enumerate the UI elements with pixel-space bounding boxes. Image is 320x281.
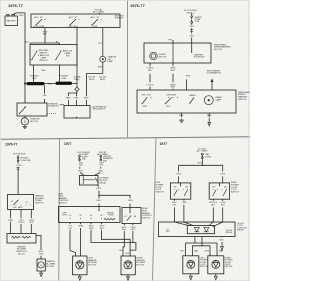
wire neutral switch to fusible link right xyxy=(59,65,61,82)
wire neutral switch to fusible link left xyxy=(33,65,35,82)
wire motor bus 2 xyxy=(192,245,210,247)
arrow relay ground xyxy=(221,242,224,251)
washer solenoid contact xyxy=(191,52,192,53)
wire rsw out1 b xyxy=(212,207,214,222)
wire fusible link to solenoid xyxy=(44,85,46,93)
node battery/fusible-link junction xyxy=(24,83,26,85)
wire charge lamp to regulator xyxy=(87,74,103,97)
wire rsw out2 a xyxy=(222,199,224,201)
wire fuse to wiper motor a xyxy=(191,23,193,25)
ground wiper switch xyxy=(179,119,184,123)
wire ignition to alternator xyxy=(76,28,78,88)
wire bus1 to left motor xyxy=(184,243,186,256)
left lock switch feed internal xyxy=(180,183,182,186)
wire fuse to relay left c xyxy=(80,173,83,176)
connector bl xyxy=(17,168,20,170)
wire lsw out1 a xyxy=(174,199,176,201)
heater switch lever bl xyxy=(13,200,18,205)
wire T-split horizontal xyxy=(31,42,60,44)
resistor element 1 bl xyxy=(12,236,21,238)
relay coil wire bm xyxy=(83,176,95,184)
wire fuse to switch bl a xyxy=(17,162,19,164)
wire charge lamp down xyxy=(102,62,104,73)
wire blower sw out1 a xyxy=(10,210,12,219)
wire ignition to T-split xyxy=(44,28,46,44)
relay diode left xyxy=(194,227,199,232)
scan edge bottom xyxy=(0,280,250,281)
starter motor xyxy=(21,118,28,125)
wire resistor to motor bl b xyxy=(40,256,42,259)
wire blower sw out3 a xyxy=(30,210,32,219)
wire wiper motor out2 lower xyxy=(172,89,174,90)
relay internal wire 1 xyxy=(175,222,189,226)
wire junction to right branch xyxy=(99,195,130,198)
wire blower sw out2 a xyxy=(20,210,22,219)
heater fuse bm xyxy=(79,156,81,161)
wire main bus xyxy=(25,83,77,85)
wire park feed stub xyxy=(172,40,174,43)
ignition contact cluster 2 xyxy=(69,19,79,26)
circuit breaker bm xyxy=(100,156,102,161)
wire long box out2 a xyxy=(80,223,82,225)
wire rsw out2 b xyxy=(222,207,224,222)
right power door lock motor symbol xyxy=(212,260,220,268)
relay internal wire 2 xyxy=(184,222,193,226)
wire long box out3 b xyxy=(91,230,136,250)
wire long box out1 b xyxy=(70,230,76,256)
left heater blower motor box bm xyxy=(73,256,87,275)
left heater blower motor symbol xyxy=(76,261,84,269)
ground left lock motor xyxy=(189,274,192,280)
wire park feed internal xyxy=(172,43,174,63)
battery xyxy=(5,15,18,26)
heater blower motor symbol bl xyxy=(38,262,44,268)
switch feed internal bm xyxy=(98,207,100,211)
wire reg stub3 lower xyxy=(86,100,88,106)
stub into regulator left xyxy=(60,104,65,106)
right box lever xyxy=(127,216,131,221)
wire fuse to junction br xyxy=(201,159,203,166)
ground starter motor xyxy=(22,125,27,129)
back-up lamp switch lever right xyxy=(55,51,61,61)
wire to right lock switch b xyxy=(222,176,224,183)
wire resistor to motor bl a xyxy=(36,236,41,251)
wire long box out2 b xyxy=(80,228,82,256)
neutral safety and back-up lamp switch box xyxy=(30,45,77,66)
wire bus2 to left motor xyxy=(191,246,193,256)
arrow instrument illumination xyxy=(211,78,214,90)
right power door lock switch box xyxy=(209,183,229,199)
alternator voltage regulator box xyxy=(64,106,90,119)
wire wiper motor out1 mid xyxy=(149,74,151,83)
resistor element 2 bl xyxy=(22,236,31,238)
wire relay out a xyxy=(98,185,99,187)
right power door lock motor box xyxy=(208,256,224,274)
wire fuse to relay left xyxy=(79,160,81,163)
wire relay ground xyxy=(221,236,223,239)
scan edge right xyxy=(248,0,250,281)
blower motor relay box bm xyxy=(80,176,99,186)
wire relay out b xyxy=(98,191,100,196)
wire right branch lower xyxy=(129,204,131,208)
wire T-split right drop xyxy=(59,43,61,45)
left lock switch dots xyxy=(174,188,188,191)
wire reg stub2 lower xyxy=(76,100,78,106)
wire breaker to relay right xyxy=(100,160,102,163)
ground heater blower motor bl xyxy=(40,271,43,277)
wire solenoid to starter motor xyxy=(24,116,26,118)
fusible link bar left xyxy=(27,82,45,85)
wire wash feed stub xyxy=(186,79,188,90)
relay diode right xyxy=(204,227,209,232)
wire right box out1 b xyxy=(123,231,124,256)
neutral safety switch lever left xyxy=(31,51,37,61)
node motor bus 2 xyxy=(201,245,202,246)
wire hot tick bl xyxy=(17,155,19,156)
wire relay out unlock xyxy=(201,237,203,246)
wire distribution br xyxy=(179,164,223,166)
page background xyxy=(0,0,250,281)
scan edge top xyxy=(0,0,250,1)
right lock switch dots xyxy=(213,188,227,191)
ground right blower motor bm xyxy=(127,275,130,281)
left heater control switch box bm xyxy=(59,207,121,223)
wire fuse to switch bl b xyxy=(17,167,19,195)
wash switch contact xyxy=(189,98,194,104)
wire wiper motor out1 upper xyxy=(149,63,151,66)
starter solenoid box xyxy=(17,103,47,116)
wire relay out lock xyxy=(194,237,196,244)
wire battery main vertical xyxy=(24,13,26,103)
wire lsw out2 a xyxy=(183,199,185,201)
wire bus1 to right motor xyxy=(216,243,218,256)
door lock relay inner box xyxy=(187,226,214,234)
right lock switch feed internal xyxy=(218,183,220,186)
panel divider vertical bottom-right xyxy=(153,137,157,281)
wire right box out2 b xyxy=(132,231,134,243)
wire long box out3 a xyxy=(90,223,92,225)
node jog merge xyxy=(130,250,131,251)
wire switch ground right xyxy=(208,113,210,117)
wire battery to main feed xyxy=(13,13,25,15)
wire right box out1 a xyxy=(123,224,125,226)
wire blower sw out2 b xyxy=(20,224,22,234)
panel divider horizontal xyxy=(0,137,250,139)
wiper switch lamp xyxy=(204,96,213,105)
wiper switch contacts A xyxy=(142,97,152,104)
left power door lock motor symbol xyxy=(187,260,195,268)
charge indicator lamp xyxy=(100,56,106,62)
scan edge left xyxy=(0,0,1,281)
wire long box out4 a xyxy=(101,223,103,225)
wire junction down a xyxy=(98,195,100,198)
fusible link bar right xyxy=(56,82,73,85)
door lock relay box xyxy=(159,222,236,237)
wire blower sw out3 b xyxy=(30,224,32,234)
heater blower motor box bl xyxy=(37,259,45,271)
wire hot to wiper fuse xyxy=(191,14,193,16)
wire right box out2 a xyxy=(132,224,134,226)
wiper switch contacts B xyxy=(165,97,178,104)
wire wiper motor out2 upper xyxy=(172,63,174,66)
wire rsw out1 a xyxy=(212,199,214,201)
dashed mechanical link xyxy=(47,113,57,115)
heater blower resistor box bl xyxy=(7,234,36,244)
regulator case ground dot xyxy=(76,117,77,118)
wire T-split left drop xyxy=(30,43,32,45)
washer solenoid internal wire xyxy=(191,43,193,52)
connector alternator feed xyxy=(75,87,79,91)
long box terminal dots xyxy=(70,217,102,220)
wire fuse to wiper motor b xyxy=(191,37,193,43)
wire alternator feed stub 2 xyxy=(76,93,79,96)
wire long box out1 a xyxy=(69,223,71,225)
windshield wiper-washer switch box xyxy=(137,90,236,113)
wire junction down b xyxy=(98,204,100,207)
wire to left lock switch a xyxy=(178,165,180,171)
panel divider vertical top xyxy=(127,0,129,137)
left power door lock switch box xyxy=(170,183,190,199)
left power door lock motor box xyxy=(183,256,199,274)
wire wiper motor out1 lower xyxy=(149,87,151,91)
wire fuse to relay left b xyxy=(79,167,81,169)
panel divider vertical bottom-left xyxy=(58,139,61,281)
windshield wiper motor box xyxy=(144,43,211,63)
wiper motor symbol xyxy=(150,52,158,60)
node relay output junction xyxy=(98,195,99,196)
wire breaker to relay right b xyxy=(100,167,102,169)
ignition contact cluster 3 xyxy=(91,19,101,26)
wiper fuse xyxy=(191,16,193,24)
right heater blower motor symbol xyxy=(124,261,132,269)
wire alternator feed stub xyxy=(68,91,77,96)
wire hot feed tick xyxy=(99,13,101,14)
left lock switch levers xyxy=(174,190,188,196)
wire ignition to charge lamp xyxy=(102,28,104,57)
switch feed dot bm xyxy=(98,210,99,211)
wire blower sw out1 b xyxy=(10,222,12,234)
heater fuse bl xyxy=(17,157,19,162)
wire reg stub1 lower xyxy=(67,100,69,106)
node distribution br xyxy=(202,165,203,166)
node motor bus 1 xyxy=(194,242,195,243)
starter solenoid lever xyxy=(19,107,26,115)
wire to left lock switch b xyxy=(178,176,180,183)
arrow ground right xyxy=(208,118,211,126)
wire wiper motor out2 mid xyxy=(172,74,174,83)
wire bus2 to right motor xyxy=(209,246,211,256)
relay contact bm xyxy=(95,178,98,183)
relay internal wire 4 xyxy=(213,222,223,227)
heater switch contact dots bl xyxy=(11,204,31,207)
wire breaker to relay right c xyxy=(95,173,100,176)
wire solenoid S lower xyxy=(44,99,46,103)
battery fuse br xyxy=(201,153,203,158)
wire lsw out2 b xyxy=(183,205,185,222)
wire long box out4 b xyxy=(102,230,131,256)
ignition contact cluster 1 xyxy=(35,19,45,26)
node rb2 join xyxy=(132,242,133,243)
ground right lock motor xyxy=(214,274,217,280)
right lock switch levers xyxy=(213,190,227,196)
wire motor bus 1 xyxy=(185,242,217,244)
connector in wiper feed xyxy=(190,28,193,34)
wire to right lock switch a xyxy=(222,165,224,171)
relay coil dot bm xyxy=(83,183,84,184)
ignition switch box xyxy=(31,14,120,28)
right heater blower motor box bm xyxy=(121,256,135,275)
wire switch ground left xyxy=(181,113,183,117)
wire lsw out1 b xyxy=(174,207,176,222)
right box feed internal xyxy=(129,208,131,213)
long box resistor zigzag xyxy=(104,218,115,220)
right heater control switch box bm xyxy=(122,208,141,224)
relay internal wire 3 xyxy=(209,222,213,226)
ground left blower motor bm xyxy=(78,275,81,281)
heater blower switch box bl xyxy=(8,195,34,210)
right box feed dot xyxy=(129,212,130,213)
